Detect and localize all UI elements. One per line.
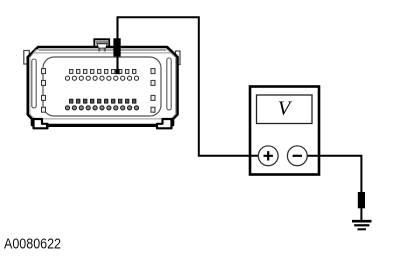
connector outer shell [28, 47, 178, 125]
connector left slot [32, 59, 36, 108]
test probe at ground [358, 192, 365, 208]
ground symbol [352, 221, 372, 229]
connector pin column left [42, 69, 46, 113]
connector pins row 1 [70, 70, 136, 74]
connector bottom edge [46, 124, 158, 127]
connector latch tab [94, 39, 109, 51]
voltmeter body [250, 87, 319, 175]
connector pin column right [151, 69, 155, 113]
wire from connector pin to voltmeter positive [118, 17, 260, 156]
connector pins row 4 [65, 106, 138, 110]
test probe at connector pin [113, 17, 120, 74]
connector left mounting tab [24, 51, 30, 65]
connector right foot [157, 119, 172, 128]
voltmeter positive terminal [258, 146, 278, 166]
connector left foot [34, 119, 48, 128]
connector shell ridge lines [30, 50, 176, 119]
connector right mounting tab [176, 51, 181, 65]
connector inner face [43, 57, 161, 116]
voltmeter display [257, 95, 313, 124]
svg-text:A0080622: A0080622 [4, 236, 61, 253]
connector pins row 3 [70, 99, 136, 103]
connector pins row 2 [65, 76, 138, 80]
voltmeter negative terminal [287, 146, 307, 166]
wire from voltmeter negative to ground [307, 156, 362, 220]
connector right slot [167, 58, 171, 110]
